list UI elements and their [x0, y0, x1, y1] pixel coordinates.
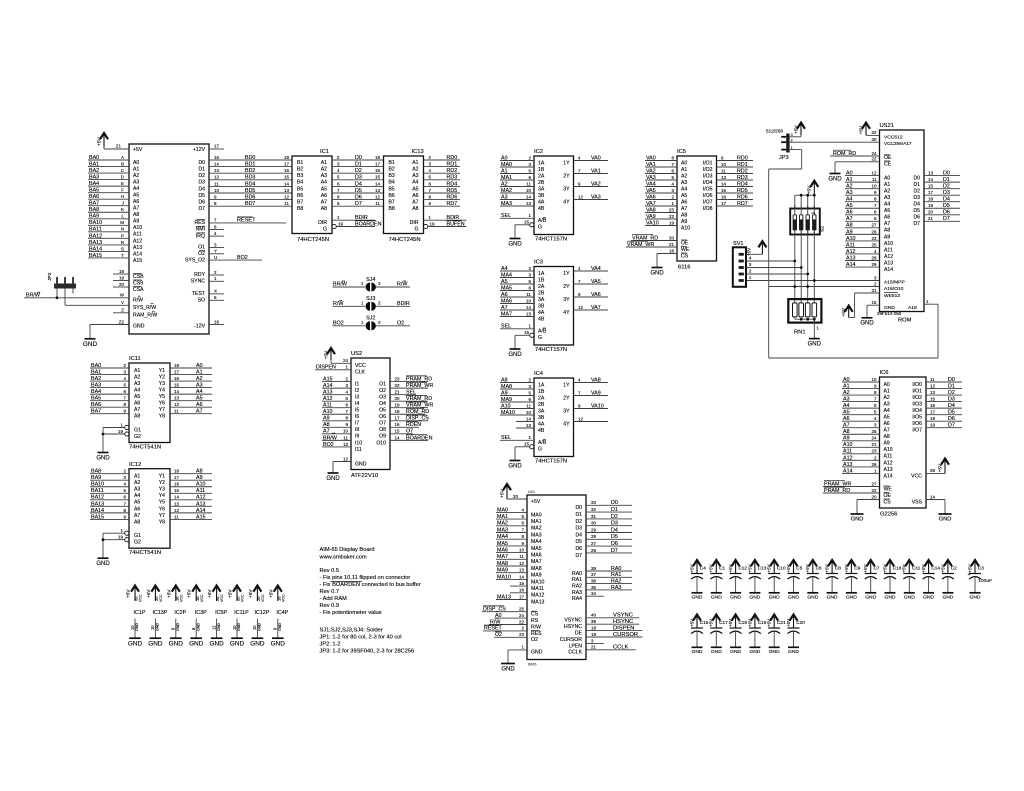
svg-text:26: 26: [872, 462, 877, 467]
svg-text:DISP_CS: DISP_CS: [406, 416, 429, 422]
svg-text:1A: 1A: [538, 160, 545, 166]
svg-text:10: 10: [872, 184, 877, 189]
svg-text:RA3: RA3: [611, 585, 621, 591]
svg-text:ROM: ROM: [898, 318, 912, 324]
svg-text:A4: A4: [843, 403, 850, 409]
svg-text:+5V: +5V: [863, 564, 868, 572]
svg-text:B8: B8: [297, 206, 303, 212]
svg-text:MA5: MA5: [531, 546, 542, 552]
svg-text:D3: D3: [198, 180, 205, 186]
svg-text:G2: G2: [134, 540, 141, 546]
svg-text:Y6: Y6: [159, 506, 165, 512]
svg-text:A9: A9: [133, 219, 139, 225]
jumper JP3 512/256 select: [766, 129, 793, 161]
svg-text:IC3P: IC3P: [195, 610, 207, 616]
svg-text:DIR: DIR: [410, 220, 419, 226]
svg-text:GND: GND: [923, 595, 934, 601]
svg-text:CSB: CSB: [133, 274, 144, 280]
svg-text:5: 5: [529, 168, 532, 173]
svg-text:4: 4: [522, 507, 525, 512]
wire JP2 pin2 to SYS_R/W: [64, 289, 66, 306]
svg-text:BA15: BA15: [91, 514, 104, 520]
net DISPEN wire to US2 CLK: [315, 365, 351, 371]
svg-text:BA3: BA3: [91, 382, 101, 388]
svg-text:GND: GND: [148, 640, 163, 647]
svg-text:18: 18: [930, 416, 935, 421]
svg-text:9: 9: [578, 292, 581, 297]
svg-text:A1: A1: [884, 182, 890, 188]
svg-text:A1: A1: [884, 388, 890, 394]
svg-text:10: 10: [526, 410, 531, 415]
svg-text:18: 18: [375, 155, 380, 160]
svg-text:GND: GND: [169, 640, 184, 647]
wire VRAM_RD to IC5 OE: [631, 235, 677, 242]
wires IC3 inputs: [500, 266, 534, 318]
svg-text:C4: C4: [700, 566, 706, 571]
svg-text:BA1: BA1: [91, 369, 101, 375]
svg-text:17: 17: [721, 201, 726, 206]
svg-text:A3: A3: [412, 173, 418, 179]
svg-text:DISPEN: DISPEN: [316, 365, 336, 371]
svg-text:+5V: +5V: [207, 589, 212, 598]
svg-text:1: 1: [672, 201, 675, 206]
svg-text:20: 20: [513, 494, 518, 499]
svg-text:2: 2: [378, 281, 381, 286]
bus BD0-BD7 connector to IC1: [209, 155, 292, 207]
capacitor C15: [689, 615, 708, 656]
svg-text:31: 31: [872, 288, 877, 293]
svg-text:GND: GND: [96, 561, 110, 567]
svg-text:D7: D7: [913, 221, 920, 227]
svg-text:IC1: IC1: [320, 149, 329, 155]
svg-text:A1: A1: [133, 166, 139, 172]
svg-text:A10: A10: [884, 447, 893, 453]
svg-text:1: 1: [214, 276, 217, 281]
svg-text:C3: C3: [978, 566, 984, 571]
svg-text:A2: A2: [884, 189, 890, 195]
svg-text:19: 19: [591, 632, 596, 637]
svg-text:2: 2: [672, 194, 675, 199]
svg-text:GND: GND: [217, 623, 221, 631]
svg-text:A6: A6: [196, 402, 203, 408]
svg-text:GND: GND: [189, 640, 204, 647]
svg-text:13: 13: [721, 175, 726, 180]
svg-text:- Add RAM: - Add RAM: [320, 596, 348, 602]
svg-text:15: 15: [375, 175, 380, 180]
svg-text:O2: O2: [495, 632, 502, 638]
svg-text:VA4: VA4: [646, 181, 656, 187]
svg-text:MA13: MA13: [497, 594, 511, 600]
svg-text:C: C: [121, 168, 125, 173]
svg-text:29F512-256: 29F512-256: [877, 311, 902, 316]
svg-text:+5V: +5V: [786, 619, 791, 627]
capacitor C10: [767, 560, 786, 601]
power +5V arrow for S2: [807, 181, 819, 195]
svg-text:GND: GND: [749, 649, 760, 655]
wire SV1 pin 2: [746, 273, 808, 275]
svg-text:B3: B3: [297, 173, 303, 179]
svg-text:RD4: RD4: [447, 181, 458, 187]
svg-text:+5V: +5V: [126, 589, 131, 598]
svg-text:19: 19: [430, 221, 435, 226]
svg-text:BA9: BA9: [89, 214, 99, 220]
svg-text:A7: A7: [846, 216, 853, 222]
svg-text:17: 17: [519, 594, 524, 599]
svg-text:19: 19: [338, 221, 343, 226]
svg-text:74HCT157N: 74HCT157N: [535, 459, 567, 465]
svg-text:C21: C21: [777, 620, 786, 625]
svg-text:19: 19: [118, 535, 123, 540]
svg-text:6: 6: [124, 389, 127, 394]
svg-text:MA4: MA4: [501, 272, 512, 278]
svg-text:A5: A5: [884, 415, 890, 421]
svg-text:A4: A4: [133, 186, 139, 192]
svg-text:I/O0: I/O0: [912, 382, 922, 388]
svg-text:D3: D3: [611, 521, 618, 527]
net BO2 wire pin U: [209, 255, 262, 261]
svg-text:MA9: MA9: [531, 573, 542, 579]
svg-text:A18: A18: [908, 305, 917, 311]
svg-text:JP3: JP3: [779, 155, 789, 161]
svg-text:R/W: R/W: [333, 301, 344, 307]
svg-text:BA13: BA13: [89, 240, 102, 246]
resistor network RN1: [788, 299, 821, 335]
svg-text:MA10: MA10: [497, 574, 511, 580]
svg-text:15: 15: [524, 220, 529, 225]
svg-text:7: 7: [214, 218, 217, 223]
svg-text:14: 14: [174, 495, 179, 500]
svg-text:Z: Z: [121, 308, 124, 313]
svg-text:C19: C19: [758, 620, 767, 625]
svg-text:12: 12: [375, 195, 380, 200]
svg-text:RA3: RA3: [572, 590, 582, 596]
svg-text:12: 12: [284, 195, 289, 200]
svg-text:9: 9: [214, 195, 217, 200]
svg-text:20: 20: [119, 282, 124, 287]
wire SV1 pin1 to US21 A15/MPP pin 3: [747, 275, 880, 280]
svg-text:A1: A1: [681, 167, 687, 173]
PLD US2 ATF22V10: [351, 351, 390, 479]
svg-text:A5: A5: [412, 186, 418, 192]
wires IC3 outputs: [574, 266, 609, 311]
svg-text:A8: A8: [323, 422, 330, 428]
svg-text:13: 13: [214, 168, 219, 173]
svg-text:PRAM_WR: PRAM_WR: [406, 383, 433, 389]
svg-text:O9: O9: [379, 434, 386, 440]
svg-text:A7: A7: [884, 428, 890, 434]
svg-text:21: 21: [872, 442, 877, 447]
svg-text:D1: D1: [943, 177, 950, 183]
wires US2 outputs: [390, 376, 433, 441]
svg-text:A13: A13: [884, 467, 893, 473]
svg-text:3: 3: [874, 423, 877, 428]
svg-text:I5: I5: [355, 408, 359, 414]
svg-text:BA13: BA13: [91, 501, 104, 507]
svg-text:RD3: RD3: [447, 175, 458, 181]
capacitor C9: [844, 560, 861, 601]
svg-text:A8: A8: [884, 228, 890, 234]
svg-text:4A: 4A: [538, 199, 545, 205]
svg-text:13: 13: [928, 171, 933, 176]
svg-text:C7: C7: [874, 566, 880, 571]
svg-text:14: 14: [284, 181, 289, 186]
svg-text:9: 9: [124, 514, 127, 519]
svg-text:A4: A4: [884, 408, 890, 414]
svg-text:GND: GND: [692, 595, 703, 601]
svg-text:SEL: SEL: [501, 435, 511, 441]
svg-text:23: 23: [872, 449, 877, 454]
svg-text:GND: GND: [250, 640, 265, 647]
svg-text:- Fix BOARDEN connected to bus: - Fix BOARDEN connected to bus buffer: [320, 582, 421, 588]
svg-text:19: 19: [930, 423, 935, 428]
svg-text:20: 20: [669, 235, 674, 240]
svg-text:10: 10: [526, 298, 531, 303]
svg-text:17: 17: [375, 162, 380, 167]
svg-text:+5V: +5V: [728, 564, 733, 572]
svg-text:A4: A4: [134, 387, 140, 393]
svg-text:2: 2: [378, 320, 381, 325]
svg-text:A3: A3: [884, 195, 890, 201]
svg-text:VCC: VCC: [159, 594, 163, 602]
ground IC12 enables G1 G2: [96, 528, 129, 567]
svg-text:I/O6: I/O6: [703, 193, 713, 199]
svg-text:18: 18: [591, 626, 596, 631]
wire JP3 pin2 to US21 pin 30 VCC256/A17: [790, 137, 880, 142]
svg-text:D3: D3: [355, 175, 362, 181]
svg-text:1: 1: [361, 320, 364, 325]
power +5V arrow at 6845 pin 20: [499, 484, 527, 499]
svg-text:A10: A10: [681, 225, 690, 231]
svg-text:D7: D7: [943, 216, 950, 222]
svg-text:A2: A2: [884, 395, 890, 401]
svg-text:8: 8: [337, 195, 340, 200]
svg-text:27: 27: [872, 223, 877, 228]
capacitor C1: [709, 560, 726, 601]
svg-text:Y7: Y7: [159, 407, 165, 413]
svg-text:2Y: 2Y: [563, 173, 570, 179]
svg-text:4: 4: [672, 181, 675, 186]
svg-text:1A: 1A: [538, 382, 545, 388]
svg-text:1: 1: [337, 215, 340, 220]
svg-text:MA8: MA8: [497, 561, 508, 567]
svg-text:CE: CE: [884, 161, 892, 167]
svg-text:SEL: SEL: [501, 213, 511, 219]
wire IC2 SEL: [500, 213, 534, 219]
svg-text:GND: GND: [749, 595, 760, 601]
svg-text:GND: GND: [508, 352, 522, 358]
wires IC13 outputs: [424, 155, 461, 207]
svg-text:2: 2: [337, 155, 340, 160]
svg-text:A: A: [121, 155, 124, 160]
svg-text:A12: A12: [843, 455, 853, 461]
svg-text:A8: A8: [681, 212, 687, 218]
svg-text:+5V: +5V: [133, 147, 143, 153]
svg-text:GND: GND: [711, 595, 722, 601]
svg-text:+5V: +5V: [825, 564, 830, 572]
svg-text:TEST: TEST: [192, 291, 206, 297]
svg-text:CSA: CSA: [133, 287, 144, 293]
svg-text:A3: A3: [884, 401, 890, 407]
wire DISP_CS to 6845 CS: [482, 606, 527, 613]
svg-text:D1: D1: [575, 512, 582, 518]
svg-text:+5V: +5V: [268, 589, 273, 598]
svg-text:+5V: +5V: [709, 564, 714, 572]
wires S2 outputs to RN1: [795, 230, 815, 303]
svg-text:I9: I9: [355, 434, 359, 440]
svg-text:1: 1: [522, 645, 525, 650]
svg-text:3B: 3B: [538, 303, 545, 309]
svg-text:H: H: [121, 194, 124, 199]
svg-text:IC5: IC5: [677, 149, 686, 155]
svg-text:A0: A0: [884, 176, 890, 182]
svg-text:MA3: MA3: [497, 527, 508, 533]
svg-text:Y7: Y7: [159, 513, 165, 519]
svg-text:O5: O5: [379, 408, 386, 414]
svg-text:D7: D7: [948, 423, 955, 429]
svg-text:16: 16: [174, 482, 179, 487]
svg-text:+5V: +5V: [767, 564, 772, 572]
svg-text:2A: 2A: [538, 284, 545, 290]
svg-text:VRAM_WR: VRAM_WR: [627, 242, 654, 248]
svg-text:+5V: +5V: [689, 564, 694, 572]
svg-text:Y8: Y8: [159, 414, 165, 420]
svg-text:+5V: +5V: [793, 125, 798, 134]
svg-text:O7: O7: [406, 429, 413, 435]
wire PRAM_RD to IC6 OE: [823, 487, 880, 494]
svg-text:12: 12: [174, 508, 179, 513]
svg-text:D3: D3: [913, 195, 920, 201]
svg-text:B: B: [121, 161, 124, 166]
svg-text:D0: D0: [575, 505, 582, 511]
svg-text:18: 18: [174, 363, 179, 368]
svg-text:22: 22: [519, 619, 524, 624]
svg-text:13: 13: [519, 568, 524, 573]
svg-text:Y2: Y2: [159, 480, 165, 486]
svg-text:A14: A14: [846, 262, 856, 268]
svg-text:A6: A6: [134, 401, 140, 407]
svg-text:A10: A10: [196, 482, 206, 488]
svg-text:I4: I4: [355, 401, 359, 407]
svg-text:5: 5: [429, 175, 432, 180]
multiplexer IC3 74HCT157N: [534, 259, 574, 353]
svg-text:BA8: BA8: [91, 469, 101, 475]
svg-text:2Y: 2Y: [563, 284, 570, 290]
svg-text:26: 26: [591, 548, 596, 553]
svg-text:HSYNC: HSYNC: [613, 619, 633, 625]
wire NMI pin 6: [209, 224, 224, 229]
svg-text:I/O2: I/O2: [912, 395, 922, 401]
svg-text:I1: I1: [355, 382, 359, 388]
svg-text:G: G: [538, 447, 542, 453]
svg-text:MA13: MA13: [531, 599, 545, 605]
svg-text:RA0: RA0: [611, 566, 621, 572]
svg-text:A11: A11: [884, 454, 893, 460]
svg-text:I/O1: I/O1: [912, 388, 922, 394]
svg-text:12: 12: [930, 383, 935, 388]
svg-text:A5: A5: [501, 279, 508, 285]
svg-text:3: 3: [346, 383, 349, 388]
svg-text:IC11: IC11: [129, 356, 141, 362]
svg-text:13: 13: [930, 390, 935, 395]
svg-text:5: 5: [529, 279, 532, 284]
svg-text:D2: D2: [355, 168, 362, 174]
svg-text:A0: A0: [681, 160, 687, 166]
svg-text:IC6: IC6: [880, 370, 889, 376]
svg-text:5: 5: [124, 488, 127, 493]
svg-text:ROM_RD: ROM_RD: [406, 409, 429, 415]
svg-text:5: 5: [672, 175, 675, 180]
svg-text:VA10: VA10: [646, 220, 659, 226]
svg-text:4A: 4A: [538, 421, 545, 427]
svg-text:14: 14: [526, 416, 531, 421]
svg-text:GND: GND: [230, 640, 245, 647]
svg-text:10: 10: [526, 188, 531, 193]
svg-text:C17: C17: [719, 620, 728, 625]
svg-text:D6: D6: [948, 416, 955, 422]
svg-text:5: 5: [346, 396, 349, 401]
svg-text:8: 8: [214, 201, 217, 206]
svg-text:32: 32: [591, 507, 596, 512]
multiplexer IC2 74HCT157N: [534, 149, 574, 243]
svg-text:B7: B7: [297, 200, 303, 206]
svg-text:IC5P: IC5P: [215, 610, 227, 616]
svg-text:10: 10: [150, 625, 155, 630]
svg-text:BA7: BA7: [89, 201, 99, 207]
svg-text:U13: U13: [528, 490, 535, 494]
svg-text:11: 11: [174, 514, 179, 519]
svg-text:GND: GND: [278, 623, 282, 631]
svg-text:A7: A7: [681, 206, 687, 212]
wires 6845 row address RA0-RA4: [586, 566, 632, 596]
svg-text:- Fix pins 10,11 flipped on co: - Fix pins 10,11 flipped on connector: [320, 575, 411, 581]
svg-text:C1: C1: [719, 566, 725, 571]
svg-text:6: 6: [429, 181, 432, 186]
wire SV1 pin 3: [746, 267, 801, 269]
power symbol IC2P: [166, 586, 186, 648]
svg-text:15: 15: [395, 429, 400, 434]
capacitor C14: [921, 560, 940, 601]
svg-text:12: 12: [211, 625, 216, 630]
svg-text:1: 1: [346, 365, 349, 370]
svg-text:28: 28: [591, 534, 596, 539]
svg-text:GND: GND: [808, 341, 822, 347]
svg-text:R/W: R/W: [531, 624, 541, 630]
svg-text:A4: A4: [846, 197, 853, 203]
svg-text:+12V: +12V: [193, 147, 206, 153]
wire -12V pin 16: [209, 319, 224, 324]
svg-text:4: 4: [578, 266, 581, 271]
wire US21 WE512 to +5V: [849, 288, 880, 318]
svg-text:4: 4: [874, 249, 877, 254]
svg-text:A9: A9: [323, 416, 330, 422]
svg-text:A9: A9: [884, 441, 890, 447]
svg-text:K: K: [121, 207, 124, 212]
svg-text:11: 11: [526, 181, 531, 186]
svg-text:VCC: VCC: [261, 594, 265, 602]
svg-text:4B: 4B: [538, 206, 545, 212]
svg-text:A1: A1: [846, 177, 853, 183]
svg-text:RA2: RA2: [611, 579, 621, 585]
svg-text:VA8: VA8: [646, 207, 656, 213]
svg-text:16: 16: [721, 194, 726, 199]
wire +12V pin 17: [209, 144, 224, 149]
svg-text:BD4: BD4: [245, 181, 255, 187]
svg-text:IC13P: IC13P: [152, 610, 167, 616]
jumper JP2: [47, 272, 76, 288]
capacitor C13: [747, 560, 766, 601]
svg-text:RD4: RD4: [737, 181, 748, 187]
svg-text:D7: D7: [198, 206, 205, 212]
